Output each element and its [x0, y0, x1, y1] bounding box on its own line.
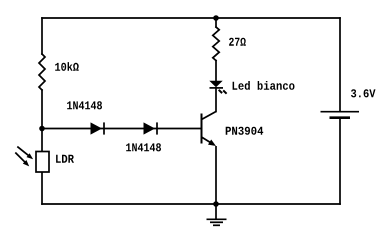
diode D1 cathode bar	[103, 122, 105, 134]
wire right rail upper	[339, 18, 341, 111]
LDR light arrow 2 shaft	[15, 153, 26, 164]
LDR light arrow 2 head	[23, 160, 29, 166]
diode D2 label 1N4148	[126, 143, 161, 151]
wire LED to collector	[215, 88, 217, 112]
resistor R1 value label 10kΩ	[55, 62, 78, 71]
diode D2 1N4148 triangle	[144, 122, 156, 134]
transistor Q1 collector diagonal	[202, 112, 217, 120]
resistor R2 value label 27Ω	[229, 38, 246, 46]
junction dot left (node base net)	[39, 126, 45, 132]
battery BT1 positive plate	[321, 111, 360, 113]
LDR body rectangle	[36, 152, 49, 173]
junction dot top (node Vcc)	[213, 15, 219, 21]
transistor Q1 base bar	[201, 114, 203, 144]
LDR light arrow 1 head	[27, 153, 34, 159]
diode D1 label 1N4148	[67, 101, 102, 109]
wire left rail upper	[41, 18, 43, 54]
LDR light arrow 1 shaft	[17, 147, 30, 157]
wire top rail	[42, 17, 340, 19]
diode D2 cathode bar	[156, 122, 158, 134]
wire left rail lower	[41, 90, 43, 204]
transistor Q1 label PN3904	[226, 127, 264, 135]
battery BT1 negative plate	[330, 116, 351, 119]
LED D3 emission mark 2	[223, 90, 226, 93]
ground bar 1	[207, 218, 227, 220]
wire base net horizontal	[42, 128, 202, 130]
LED D3 triangle	[209, 81, 222, 88]
wire resistor to LED	[215, 61, 217, 81]
resistor R2 27Ω zigzag	[213, 27, 219, 61]
wire bottom rail	[42, 203, 340, 205]
LED D3 emission mark 1	[219, 90, 222, 93]
battery BT1 label 3.6V	[351, 89, 376, 97]
wire emitter to ground rail	[215, 146, 217, 204]
ground bar 3	[213, 224, 220, 226]
wire right rail lower	[339, 119, 341, 205]
LDR label	[56, 155, 74, 163]
LED D3 cathode bar	[210, 87, 224, 89]
diode D1 1N4148 triangle	[91, 122, 103, 134]
transistor Q1 emitter diagonal	[202, 137, 214, 144]
LED D3 label Led bianco	[233, 81, 295, 90]
transistor Q1 emitter arrowhead	[208, 140, 216, 147]
resistor R1 10kΩ zigzag	[39, 54, 45, 90]
ground bar 2	[210, 221, 223, 223]
wire collector column from junction to resistor	[215, 18, 217, 27]
ground stub wire	[215, 204, 217, 219]
junction dot bottom (node GND)	[213, 201, 219, 207]
